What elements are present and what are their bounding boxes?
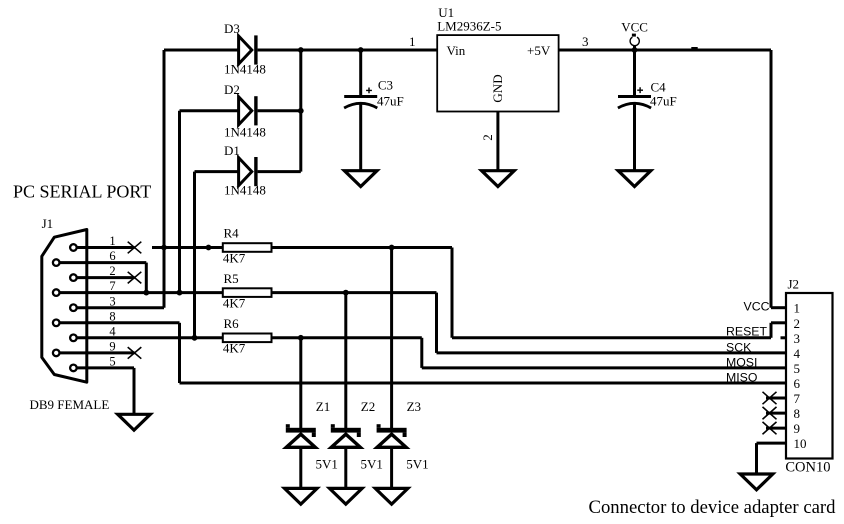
svg-text:D3: D3 xyxy=(224,21,240,36)
svg-text:DB9 FEMALE: DB9 FEMALE xyxy=(30,397,110,412)
svg-text:SCK: SCK xyxy=(726,340,752,354)
svg-text:2: 2 xyxy=(794,316,801,331)
svg-text:9: 9 xyxy=(794,421,801,436)
wire: J2 pin 7 stub (NC) xyxy=(766,397,786,400)
diode D2 xyxy=(239,96,258,125)
svg-text:10: 10 xyxy=(794,436,807,451)
svg-text:RESET: RESET xyxy=(726,324,767,338)
wire: riser from D1 anode down to J1 pin4 row xyxy=(193,172,196,338)
wire: J2 pin 3 stub xyxy=(781,336,787,339)
svg-text:Vin: Vin xyxy=(447,43,466,58)
wire: J1 pin 2 stub (NC) xyxy=(73,276,134,279)
svg-text:MISO: MISO xyxy=(726,371,757,385)
svg-text:R4: R4 xyxy=(224,226,240,241)
svg-text:LM2936Z-5: LM2936Z-5 xyxy=(437,19,501,34)
wire: Z3 cathode drop xyxy=(390,248,393,430)
no-connect X on J2 pin 7 xyxy=(763,392,777,404)
svg-text:PC SERIAL PORT: PC SERIAL PORT xyxy=(13,182,151,202)
svg-text:D1: D1 xyxy=(224,143,240,158)
junction artifact on VCC rail xyxy=(691,47,697,50)
wire: R4 right lead to RESET drop xyxy=(272,246,453,249)
junction: pin6 drop / pin7 row xyxy=(143,290,149,296)
svg-text:GND: GND xyxy=(490,74,505,102)
junction: D2 cathode / bus xyxy=(298,108,304,114)
resistor R4 xyxy=(223,243,272,252)
wire: J1 pin 3 to D3 riser xyxy=(73,306,164,309)
svg-text:C3: C3 xyxy=(378,77,393,92)
no-connect X on J2 pin 8 xyxy=(763,407,777,419)
node VCC: supply symbol xyxy=(630,35,639,50)
ground (U1 pin 2) xyxy=(482,171,515,187)
no-connect X on J1 pin 2 xyxy=(128,272,142,284)
junction: D1 riser / pin4 row xyxy=(192,335,198,341)
plus sign (C4 polarity) xyxy=(637,87,643,93)
svg-text:1: 1 xyxy=(109,234,115,248)
svg-text:5: 5 xyxy=(794,361,801,376)
resistor R5 xyxy=(223,288,272,297)
junction: Z3 / R4 net xyxy=(389,245,395,251)
connector J2 box xyxy=(786,293,833,459)
wire: Z1 cathode drop xyxy=(299,338,302,430)
ground (J1 pin 5) xyxy=(118,414,151,430)
svg-text:4K7: 4K7 xyxy=(223,341,246,356)
svg-text:Z2: Z2 xyxy=(361,399,375,414)
capacitor C3 xyxy=(344,50,377,171)
junction: C4 / VCC rail xyxy=(632,47,638,53)
svg-text:D2: D2 xyxy=(224,82,240,97)
wire: J1 pin 4 row to R6 xyxy=(73,336,222,339)
J1 pin numbers 1,6,2,7,3,8,4,9,5 xyxy=(109,234,116,368)
wire: D2 anode and cathode leads xyxy=(180,109,301,112)
no-connect X on J1 pin 1 xyxy=(128,242,142,254)
svg-text:6: 6 xyxy=(109,249,115,263)
svg-text:1N4148: 1N4148 xyxy=(224,183,266,198)
svg-text:1N4148: 1N4148 xyxy=(224,124,266,139)
svg-text:VCC: VCC xyxy=(621,19,648,34)
wire: J1 pin 8 to MISO line xyxy=(56,323,179,383)
wire: J1 pin 7 row to R5 xyxy=(56,291,223,294)
wire: top Vin rail from D-riser to U1 xyxy=(164,49,437,52)
wire: J1 pin 1 stub (NC) xyxy=(73,246,134,249)
wire: J2 pin 9 stub (NC) xyxy=(766,427,786,430)
wire: Z1 anode stem xyxy=(299,447,302,489)
ground (J2 pin 10) xyxy=(740,474,773,490)
junction: Z2 / R5 net xyxy=(343,290,349,296)
svg-text:3: 3 xyxy=(109,294,115,308)
svg-text:2: 2 xyxy=(109,264,115,278)
junction: D2 riser / pin7 row xyxy=(177,290,183,296)
svg-text:4: 4 xyxy=(794,346,801,361)
junction: cathode bus / top rail xyxy=(298,47,304,53)
svg-text:8: 8 xyxy=(794,406,801,421)
wire: R5 right lead to SCK drop xyxy=(272,291,437,294)
svg-text:7: 7 xyxy=(794,391,801,406)
capacitor C4 xyxy=(618,50,651,171)
wire: VCC rail down right side to J2 pin 1 xyxy=(771,50,786,308)
wire: J1 pin 6 to pin 7 net xyxy=(56,263,146,293)
svg-text:R6: R6 xyxy=(224,316,240,331)
svg-text:CON10: CON10 xyxy=(785,459,830,475)
svg-text:3: 3 xyxy=(794,331,801,346)
svg-text:5V1: 5V1 xyxy=(361,457,383,472)
svg-text:4: 4 xyxy=(109,324,116,338)
wire: MOSI net (R6 down, across to J2 pin 5) xyxy=(422,338,786,368)
svg-text:4K7: 4K7 xyxy=(223,250,246,265)
svg-text:6: 6 xyxy=(794,376,801,391)
junction: C3 / top rail xyxy=(358,47,364,53)
svg-text:9: 9 xyxy=(109,340,115,354)
wire: +5V output rail from U1 to right edge xyxy=(559,49,771,52)
diode D3 xyxy=(239,35,258,64)
ground (C3) xyxy=(344,171,377,187)
diode D1 xyxy=(239,157,258,186)
plus sign (C3 polarity) xyxy=(366,88,372,94)
svg-text:5V1: 5V1 xyxy=(406,457,428,472)
svg-text:47uF: 47uF xyxy=(377,93,404,108)
wire: Z2 anode stem xyxy=(344,447,347,489)
wire: cathode bus vertical x=300.8 xyxy=(299,50,302,172)
svg-text:47uF: 47uF xyxy=(650,94,677,109)
wire: J1 pin 9 stub (NC) xyxy=(56,351,134,354)
wire: J2 pin 8 stub (NC) xyxy=(766,412,786,415)
junction: D3 riser / R4 row xyxy=(161,245,167,251)
wire: riser from D3 anode down to J1 pin3 xyxy=(163,50,166,308)
svg-text:7: 7 xyxy=(109,279,115,293)
J2 pin numbers 1..10 xyxy=(794,301,807,451)
wire: MISO net (across to J2 pin 6) xyxy=(180,382,787,385)
junction (stray) on R4 left lead xyxy=(206,245,212,251)
J1 pin circles (pins 1..9) xyxy=(53,244,77,371)
svg-text:4K7: 4K7 xyxy=(223,295,246,310)
svg-text:J2: J2 xyxy=(788,277,800,292)
svg-text:5V1: 5V1 xyxy=(316,457,338,472)
svg-text:MOSI: MOSI xyxy=(726,355,757,369)
no-connect X on J1 pin 9 xyxy=(128,347,142,359)
zener diode Z3 xyxy=(377,424,407,447)
wire: J1 pin 5 to ground xyxy=(73,368,134,414)
ground (Z2) xyxy=(330,488,363,504)
zener diode Z2 xyxy=(331,424,361,447)
wire: Z3 anode stem xyxy=(390,447,393,489)
wire: SCK net (R5 down, across to J2 pin 4) xyxy=(437,293,787,353)
svg-text:3: 3 xyxy=(582,34,589,49)
wire: D1 anode and cathode leads xyxy=(195,170,301,173)
zener diode Z1 xyxy=(286,424,316,447)
svg-text:Connector to device adapter ca: Connector to device adapter card xyxy=(589,497,837,518)
op-amp/regulator U1 box LM2936Z-5 xyxy=(437,35,558,111)
wire: RESET net (R4 down, across, jog up to J2 pin 2) xyxy=(452,248,786,338)
svg-text:1: 1 xyxy=(794,301,801,316)
svg-text:J1: J1 xyxy=(42,216,54,231)
connector J1 DB9 body outline xyxy=(42,230,87,383)
wire: R6 right lead to MOSI drop xyxy=(272,336,422,339)
svg-text:1: 1 xyxy=(409,34,416,49)
svg-text:C4: C4 xyxy=(651,79,667,94)
svg-text:8: 8 xyxy=(109,309,115,323)
ground (Z1) xyxy=(285,488,318,504)
wire: R4 left lead xyxy=(152,246,223,249)
wire: J2 pin 10 to ground xyxy=(757,443,787,474)
svg-text:VCC: VCC xyxy=(744,299,770,313)
svg-text:2: 2 xyxy=(480,134,495,141)
no-connect X on J2 pin 9 xyxy=(763,422,777,434)
wire: Z2 cathode drop xyxy=(344,293,347,430)
svg-text:Z3: Z3 xyxy=(407,399,421,414)
svg-text:+5V: +5V xyxy=(527,43,551,58)
ground (C4) xyxy=(618,171,651,187)
svg-text:5: 5 xyxy=(109,355,115,369)
svg-text:1N4148: 1N4148 xyxy=(224,62,266,77)
wire: U1 GND pin stem xyxy=(496,112,499,171)
resistor R6 xyxy=(223,334,272,343)
svg-text:R5: R5 xyxy=(224,271,239,286)
ground (Z3) xyxy=(375,488,408,504)
svg-text:Z1: Z1 xyxy=(316,399,330,414)
junction: Z1 / R6 net xyxy=(298,335,304,341)
wire: riser from D2 anode down to J1 pins 6+7 row xyxy=(178,111,181,293)
